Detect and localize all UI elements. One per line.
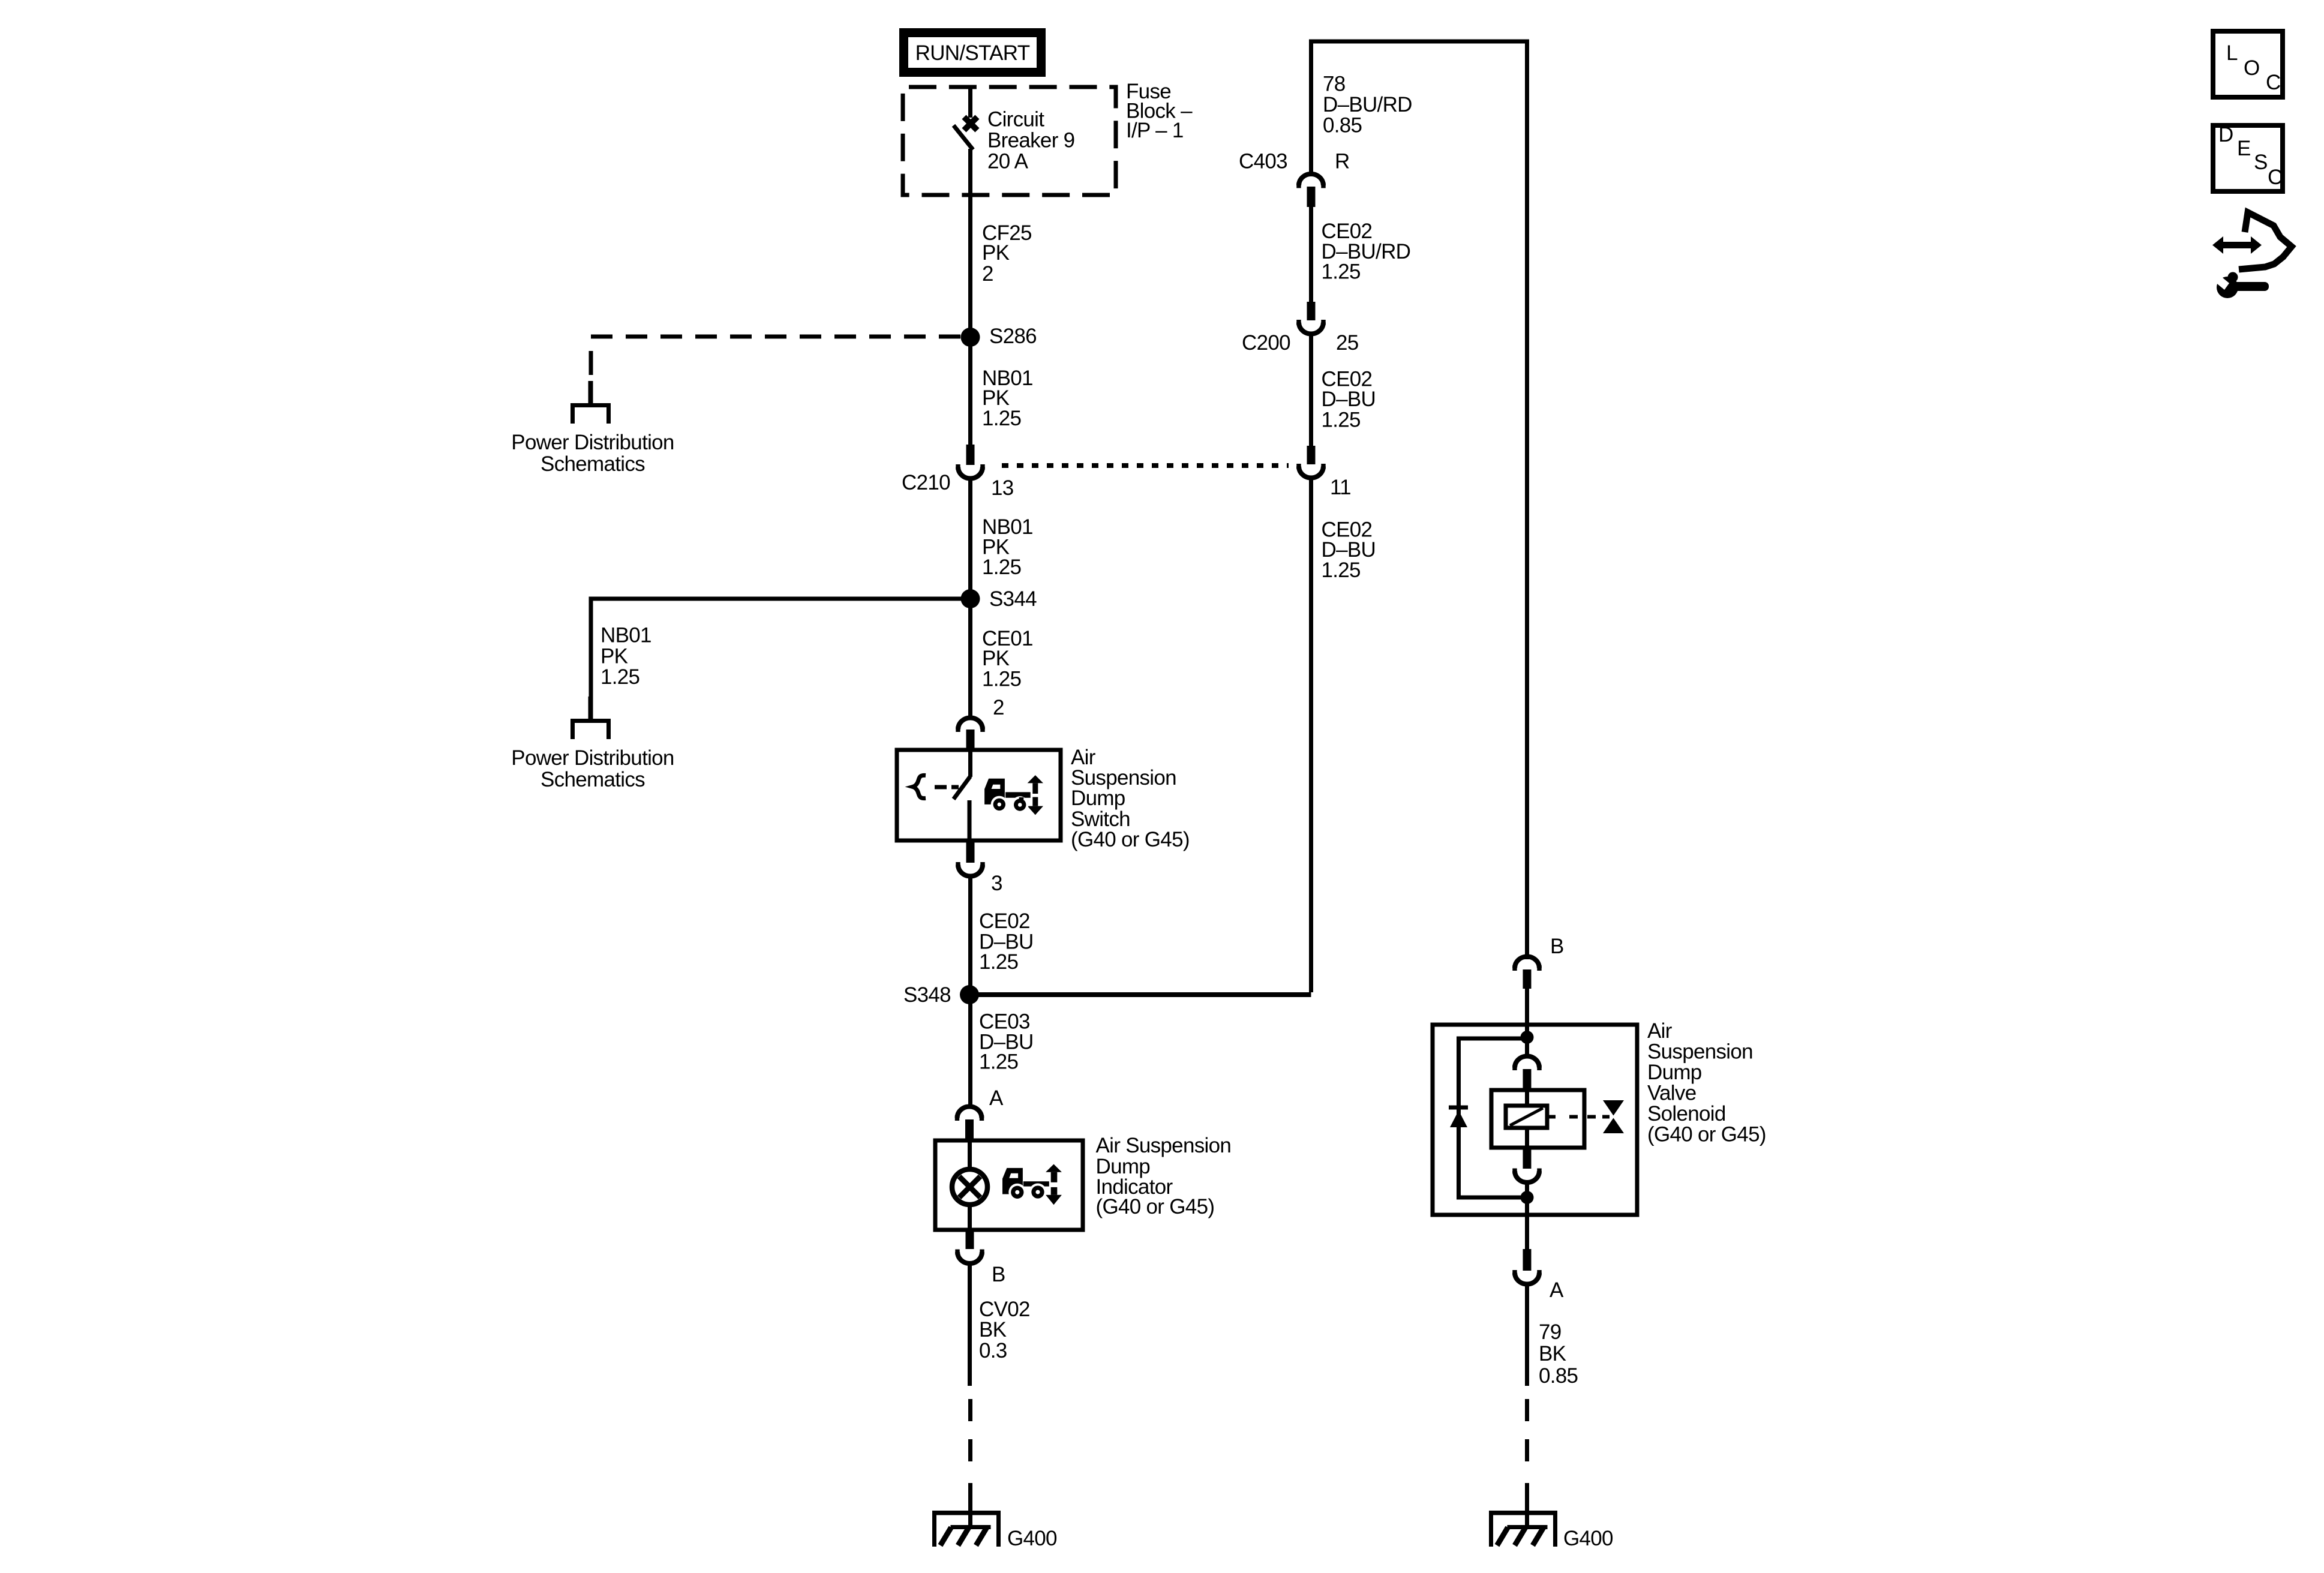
svg-text:Suspension: Suspension [1647,1040,1753,1064]
svg-text:0.3: 0.3 [979,1339,1007,1362]
svg-text:Circuit: Circuit [987,108,1044,131]
svg-text:13: 13 [991,476,1014,500]
svg-text:11: 11 [1330,476,1351,499]
svg-text:Air: Air [1647,1019,1673,1043]
svg-text:D–BU: D–BU [1322,388,1376,411]
svg-text:Solenoid: Solenoid [1647,1102,1726,1125]
svg-text:L: L [2226,41,2238,65]
svg-text:O: O [2244,56,2260,80]
svg-text:2: 2 [982,262,993,286]
svg-text:C210: C210 [902,471,950,494]
svg-text:Schematics: Schematics [541,452,645,476]
svg-text:78: 78 [1323,73,1346,96]
svg-text:S344: S344 [989,587,1037,611]
svg-text:1.25: 1.25 [982,556,1021,579]
svg-text:0.85: 0.85 [1323,114,1362,137]
svg-text:BK: BK [979,1318,1007,1341]
svg-text:D–BU/RD: D–BU/RD [1323,93,1412,116]
svg-text:C403: C403 [1239,150,1287,173]
svg-text:(G40 or G45): (G40 or G45) [1071,828,1190,851]
svg-text:1.25: 1.25 [979,950,1018,974]
svg-text:1.25: 1.25 [1322,559,1361,582]
svg-text:PK: PK [600,645,628,668]
svg-text:1.25: 1.25 [982,407,1021,430]
svg-text:S348: S348 [903,983,951,1007]
svg-text:2: 2 [993,696,1004,719]
svg-text:Power Distribution: Power Distribution [511,431,674,454]
svg-text:A: A [1550,1278,1564,1302]
svg-text:1.25: 1.25 [600,665,639,689]
svg-text:Dump: Dump [1071,786,1125,810]
svg-text:1.25: 1.25 [1322,260,1361,284]
svg-text:B: B [1550,935,1564,958]
svg-text:0.85: 0.85 [1539,1364,1578,1388]
svg-text:1.25: 1.25 [979,1050,1018,1074]
svg-text:Power Distribution: Power Distribution [511,746,674,770]
svg-text:R: R [1335,150,1350,173]
svg-text:PK: PK [982,241,1010,265]
svg-text:(G40 or G45): (G40 or G45) [1096,1195,1215,1218]
svg-text:G400: G400 [1007,1527,1057,1550]
svg-text:Air Suspension: Air Suspension [1096,1134,1232,1157]
svg-text:G400: G400 [1563,1527,1613,1550]
svg-text:D: D [2218,123,2233,146]
svg-text:1.25: 1.25 [982,668,1021,691]
svg-text:NB01: NB01 [600,624,651,647]
svg-text:C: C [2268,166,2283,189]
svg-text:1.25: 1.25 [1322,409,1361,432]
svg-text:CE02: CE02 [979,909,1030,933]
svg-text:Schematics: Schematics [541,768,645,791]
svg-text:Dump: Dump [1647,1061,1702,1084]
svg-text:C: C [2266,71,2281,94]
svg-text:25: 25 [1336,331,1359,355]
svg-text:RUN/START: RUN/START [915,41,1030,65]
svg-text:I/P – 1: I/P – 1 [1126,119,1184,142]
svg-text:3: 3 [991,872,1002,895]
svg-text:S: S [2254,151,2268,174]
svg-text:B: B [992,1263,1005,1286]
svg-text:79: 79 [1539,1320,1562,1344]
svg-text:S286: S286 [989,325,1037,348]
svg-text:(G40 or G45): (G40 or G45) [1647,1123,1766,1146]
svg-text:E: E [2237,137,2251,160]
svg-text:20 A: 20 A [987,150,1029,173]
svg-text:A: A [989,1086,1004,1110]
svg-text:Breaker 9: Breaker 9 [987,129,1074,152]
svg-text:BK: BK [1539,1342,1566,1365]
svg-text:C200: C200 [1242,331,1290,355]
svg-text:PK: PK [982,647,1010,670]
svg-text:Valve: Valve [1647,1082,1696,1105]
